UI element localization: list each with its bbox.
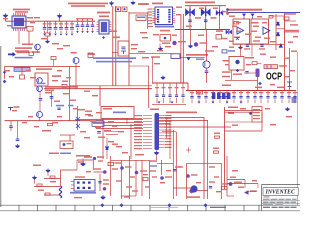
svg-text:INVENTEC: INVENTEC: [265, 189, 296, 196]
svg-text:OCP: OCP: [266, 72, 282, 83]
